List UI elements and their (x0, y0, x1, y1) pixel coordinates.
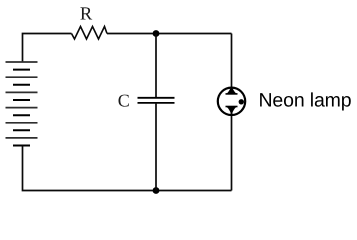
node junction dot top (capacitor tap) (153, 30, 160, 37)
neon lamp top electrode triangle (226, 87, 237, 94)
battery B1 long plate 3 (6, 91, 38, 93)
battery B1 short plate 2 (13, 84, 30, 86)
wire capacitor top lead (155, 34, 157, 98)
wire neon lamp bottom lead (231, 107, 233, 191)
battery B1 long plate 6 (6, 137, 38, 139)
capacitor C1 top plate (138, 97, 175, 99)
capacitor C1 bottom plate (138, 102, 175, 104)
svg-text:Neon lamp: Neon lamp (259, 90, 352, 112)
battery B1 short plate 3 (13, 99, 30, 101)
svg-text:R: R (80, 5, 93, 25)
neon lamp bottom electrode bar (226, 106, 238, 108)
neon lamp bottom electrode triangle (226, 106, 237, 113)
wire bottom-left from battery to bottom rail (23, 146, 157, 191)
battery B1 long plate 2 (6, 76, 38, 78)
wire top-left rail from battery corner to resistor (23, 34, 72, 63)
wire bottom rail right segment (156, 190, 232, 192)
battery B1 long plate 5 (6, 122, 38, 124)
battery B1 short plate 5 (13, 129, 30, 131)
resistor R1 zigzag (72, 27, 108, 40)
battery B1 long plate 1 (6, 61, 38, 63)
svg-text:C: C (118, 91, 130, 111)
wire neon lamp top lead (231, 34, 233, 95)
neon lamp envelope circle (218, 88, 245, 115)
battery B1 short plate 6 (13, 145, 30, 147)
neon lamp gas dot (239, 99, 244, 104)
wire top rail from resistor to top-right corner (107, 33, 232, 35)
battery B1 short plate 1 (13, 69, 30, 71)
wire capacitor bottom lead (155, 103, 157, 191)
node junction dot bottom (capacitor tap) (153, 187, 160, 194)
neon lamp top electrode bar (226, 93, 238, 95)
battery B1 short plate 4 (13, 114, 30, 116)
battery B1 long plate 4 (6, 107, 38, 109)
